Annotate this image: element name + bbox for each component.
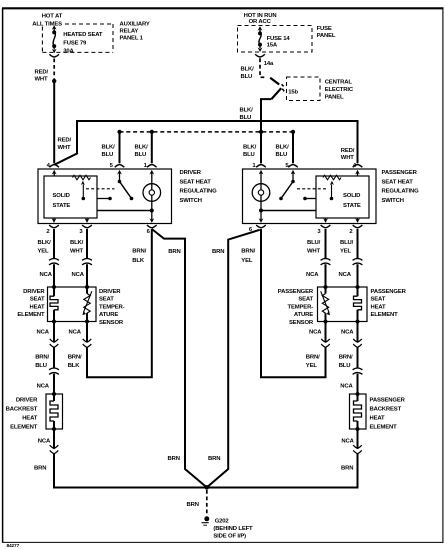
label G202 BEHIND LEFT SIDE OF I/P: [213, 518, 253, 539]
wire BRN from passenger pin 6: [207, 230, 260, 488]
fuse 79 HEATED SEAT 30A: [52, 25, 57, 53]
label BRN/BLU driver: [35, 354, 49, 369]
svg-text:(BEHIND LEFT: (BEHIND LEFT: [213, 526, 253, 532]
svg-text:NCA: NCA: [69, 330, 82, 336]
svg-text:BRN/: BRN/: [339, 354, 353, 360]
pin 6 driver connector: [147, 211, 157, 228]
svg-text:DRIVER: DRIVER: [23, 289, 45, 295]
inline connector on BLU/YEL: [353, 259, 363, 265]
wire from driver backrest element: [53, 429, 55, 448]
svg-text:BLK/: BLK/: [276, 145, 290, 151]
inline connector on driver BRN/BLK wire: [83, 339, 92, 348]
svg-text:WHT: WHT: [58, 145, 72, 151]
svg-text:BRN/: BRN/: [132, 248, 146, 254]
svg-text:BRN: BRN: [341, 466, 353, 472]
svg-text:BLU: BLU: [276, 152, 288, 158]
label BLK/BLU at passenger pin 1: [243, 145, 257, 159]
switch arm driver: [118, 180, 134, 201]
svg-text:6: 6: [147, 229, 151, 235]
label CENTRAL ELECTRIC PANEL: [325, 80, 354, 101]
svg-text:BLK/: BLK/: [241, 67, 255, 73]
svg-text:BLU: BLU: [35, 363, 47, 369]
driver seat heat element: [50, 287, 58, 322]
wire BLK/BLU from central electric panel: [261, 99, 271, 163]
svg-text:HEAT: HEAT: [30, 304, 46, 310]
svg-text:SEAT: SEAT: [99, 297, 114, 303]
indicator lamp passenger: [252, 184, 270, 211]
label AUXILIARY RELAY PANEL 1: [120, 22, 150, 42]
driver backrest heat element: [50, 394, 58, 429]
wiper arrow driver: [81, 181, 85, 201]
wire BRN dashed to G202: [206, 490, 208, 514]
svg-text:PASSENGER: PASSENGER: [382, 170, 418, 176]
wire RED/WHT dashed from fuse 79: [53, 59, 55, 79]
label BLK/BLU at driver pin 5: [102, 145, 116, 159]
pin 2 passenger connector: [353, 218, 363, 228]
switch arm passenger: [279, 180, 295, 201]
svg-text:BRN: BRN: [168, 456, 180, 462]
svg-text:G202: G202: [215, 518, 230, 524]
svg-text:ELEMENT: ELEMENT: [370, 425, 398, 431]
svg-text:ATURE: ATURE: [99, 312, 118, 318]
wire BRN/BLU passenger: [357, 347, 359, 368]
dashed control link passenger: [297, 188, 326, 190]
svg-text:PANEL 1: PANEL 1: [120, 36, 144, 42]
driver seat element assembly box: [48, 287, 97, 322]
wire BLK/BLU drop to driver pin 1: [151, 132, 153, 163]
label FUSE PANEL: [317, 26, 336, 39]
svg-text:SEAT HEAT: SEAT HEAT: [180, 179, 212, 185]
svg-text:WHT: WHT: [70, 249, 84, 255]
label BRN/YEL at passenger pin 6: [241, 248, 255, 263]
passenger backrest heat element box: [350, 394, 367, 429]
inline connector second on passenger BRN/BLU: [353, 368, 363, 374]
svg-text:BLK/: BLK/: [70, 240, 84, 246]
solid state module passenger: [316, 176, 369, 218]
svg-text:NCA: NCA: [309, 330, 322, 336]
junction on bus at passenger pin 5 drop: [291, 130, 295, 134]
junction on bus at driver pin 1 drop: [150, 130, 154, 134]
svg-text:FUSE 79: FUSE 79: [63, 41, 87, 47]
pin 4 passenger connector: [353, 165, 363, 177]
svg-text:YEL: YEL: [306, 363, 318, 369]
svg-text:NCA: NCA: [72, 272, 85, 278]
svg-text:WHT: WHT: [35, 77, 49, 83]
svg-text:BLK: BLK: [132, 258, 145, 264]
wire BRN ground bus: [54, 487, 358, 489]
svg-text:ALL TIMES: ALL TIMES: [32, 22, 62, 28]
passenger backrest heat element: [354, 394, 362, 429]
svg-text:1: 1: [144, 163, 148, 169]
connector 14a at fuse panel: [255, 54, 265, 57]
svg-text:5: 5: [285, 163, 289, 169]
svg-text:BRN/: BRN/: [68, 354, 82, 360]
label BRN/BLK driver: [68, 354, 82, 369]
svg-text:BLU/: BLU/: [307, 240, 321, 246]
dashed control link driver: [86, 188, 115, 190]
pin 4 driver connector: [49, 165, 59, 177]
svg-text:REGULATING: REGULATING: [180, 189, 218, 195]
label DRIVER SEAT HEAT REGULATING SWITCH: [180, 170, 218, 204]
label BRN/YEL passenger: [306, 354, 320, 369]
svg-text:NCA: NCA: [339, 272, 352, 278]
svg-text:RED/: RED/: [35, 69, 49, 75]
inline connector on passenger BRN/YEL wire: [321, 339, 330, 348]
wire BLK/WHT from driver pin 3: [86, 229, 88, 259]
svg-text:SENSOR: SENSOR: [289, 320, 314, 326]
svg-text:ELEMENT: ELEMENT: [17, 312, 45, 318]
svg-text:NCA: NCA: [341, 439, 354, 445]
driver seat temperature sensor: [82, 287, 91, 322]
label BLK/BLU at passenger pin 5: [276, 145, 290, 159]
svg-text:15A: 15A: [267, 43, 278, 49]
svg-text:YEL: YEL: [340, 249, 352, 255]
svg-text:CENTRAL: CENTRAL: [325, 80, 353, 86]
svg-text:BLU/: BLU/: [340, 240, 354, 246]
label DRIVER BACKREST HEAT ELEMENT: [6, 398, 38, 431]
svg-text:YEL: YEL: [38, 249, 50, 255]
inline connector on BLK/WHT: [82, 259, 92, 265]
svg-text:BLK/: BLK/: [102, 145, 116, 151]
label BLK/BLU upper: [241, 67, 255, 81]
svg-text:BLU: BLU: [240, 115, 252, 121]
svg-text:4: 4: [353, 163, 357, 169]
svg-text:BRN: BRN: [208, 456, 220, 462]
wiper arrow passenger: [330, 181, 334, 201]
svg-text:SEAT: SEAT: [298, 297, 313, 303]
pin 3 passenger connector: [321, 218, 331, 228]
svg-text:PANEL: PANEL: [325, 95, 344, 101]
resistor in passenger solid state module: [323, 175, 341, 180]
svg-text:84277: 84277: [7, 543, 20, 549]
passenger seat element assembly box: [318, 287, 368, 322]
label PASSENGER SEAT TEMPERATURE SENSOR: [278, 289, 314, 326]
svg-text:BRN/: BRN/: [35, 354, 49, 360]
label HEATED SEAT FUSE 79 30A: [63, 32, 103, 54]
wire BLU/YEL from passenger pin 2: [357, 229, 359, 259]
svg-text:SOLID: SOLID: [343, 193, 360, 199]
junction on bus at driver pin 5 drop: [117, 130, 121, 134]
wire from passenger sensor bottom: [325, 322, 327, 343]
label PASSENGER BACKREST HEAT ELEMENT: [370, 398, 406, 431]
svg-text:BLU: BLU: [102, 152, 114, 158]
inline connector on driver BRN/BLU wire: [50, 339, 59, 348]
label BLK/BLU lower: [240, 107, 254, 121]
svg-text:3: 3: [317, 229, 321, 235]
label BRN/BLK at driver pin 6: [132, 248, 146, 263]
node HOT IN RUN OR ACC: [244, 13, 277, 25]
splice on RED/WHT feed: [52, 79, 56, 83]
label BLK/WHT: [70, 240, 84, 255]
pin 5 driver connector: [115, 165, 125, 182]
svg-text:BLK/: BLK/: [135, 145, 149, 151]
svg-text:1: 1: [252, 163, 256, 169]
svg-text:HOT IN RUN: HOT IN RUN: [244, 13, 277, 19]
junction driver backrest bottom: [52, 427, 56, 431]
wire from driver sensor bottom: [86, 322, 88, 343]
svg-text:NCA: NCA: [37, 384, 50, 390]
label DRIVER SEAT HEAT ELEMENT: [17, 289, 45, 318]
pin 3 driver connector: [82, 218, 92, 228]
svg-text:2: 2: [349, 229, 353, 235]
svg-text:OR ACC: OR ACC: [249, 19, 272, 25]
svg-text:HEAT: HEAT: [22, 416, 38, 422]
wire BLU/WHT from passenger pin 3: [325, 229, 327, 259]
junction passenger backrest bottom: [356, 427, 360, 431]
wire RED/WHT down to driver switch pin 4: [53, 81, 55, 163]
pin 6 passenger connector: [256, 211, 266, 228]
connector 15b male/female pair: [270, 78, 284, 99]
wire BRN driver backrest to ground bus: [53, 454, 55, 489]
svg-text:NCA: NCA: [40, 272, 53, 278]
junction driver element top: [52, 285, 56, 289]
wire from passenger backrest element: [357, 429, 359, 448]
svg-text:15b: 15b: [288, 90, 298, 96]
label BLU/YEL: [340, 240, 354, 255]
pin 5 passenger connector: [288, 165, 298, 182]
junction driver sensor top: [85, 285, 89, 289]
label SOLID STATE: [53, 193, 71, 209]
svg-text:BRN/: BRN/: [241, 248, 255, 254]
wire to passenger backrest element: [357, 374, 359, 394]
label PASSENGER SEAT HEAT REGULATING SWITCH: [382, 170, 420, 204]
junction passenger sensor top: [324, 285, 328, 289]
wire inside driver switch to pin 6: [97, 210, 152, 212]
wire BLU/YEL to passenger heat element: [357, 264, 359, 287]
fuse 14 15A: [258, 26, 263, 52]
pin 1 driver connector: [147, 165, 157, 190]
junction passenger element top: [356, 285, 360, 289]
indicator lamp driver: [143, 184, 161, 211]
svg-text:SENSOR: SENSOR: [99, 320, 124, 326]
svg-text:RED/: RED/: [58, 137, 72, 143]
svg-text:BLU: BLU: [135, 152, 147, 158]
svg-text:BRN: BRN: [186, 502, 198, 508]
svg-text:PASSENGER: PASSENGER: [371, 289, 407, 295]
svg-text:ATURE: ATURE: [294, 312, 313, 318]
svg-text:BRN: BRN: [212, 249, 224, 255]
ground G202: [202, 516, 210, 525]
svg-text:SEAT HEAT: SEAT HEAT: [382, 179, 414, 185]
svg-text:2: 2: [46, 229, 50, 235]
passenger seat temperature sensor: [321, 287, 330, 322]
svg-text:FUSE: FUSE: [317, 26, 332, 32]
wire RED/WHT branch to passenger switch pin 4: [54, 121, 357, 165]
svg-text:REGULATING: REGULATING: [382, 189, 420, 195]
svg-text:BLK/: BLK/: [240, 107, 254, 113]
junction driver sensor bottom: [85, 320, 89, 324]
label RED/WHT branch: [58, 137, 72, 151]
svg-text:PANEL: PANEL: [317, 33, 336, 39]
svg-text:WHT: WHT: [341, 155, 355, 161]
svg-text:3: 3: [79, 229, 83, 235]
label RED/WHT passenger: [341, 148, 355, 161]
svg-text:DRIVER: DRIVER: [16, 398, 38, 404]
svg-text:BLK: BLK: [68, 363, 81, 369]
wire BRN/BLU driver: [53, 347, 55, 368]
svg-text:5: 5: [110, 163, 114, 169]
svg-text:PASSENGER: PASSENGER: [278, 289, 314, 295]
svg-text:NCA: NCA: [306, 272, 319, 278]
svg-text:SEAT: SEAT: [30, 297, 45, 303]
junction ground bus: [205, 485, 210, 490]
label SOLID STATE passenger: [343, 193, 361, 209]
label BLK/YEL: [38, 240, 52, 255]
svg-text:WHT: WHT: [307, 249, 321, 255]
inline connector second on driver BRN/BLU: [49, 368, 59, 374]
svg-text:BACKREST: BACKREST: [370, 407, 402, 413]
svg-text:RED/: RED/: [341, 148, 355, 154]
svg-text:NCA: NCA: [341, 330, 354, 336]
svg-text:HEATED SEAT: HEATED SEAT: [63, 32, 103, 38]
svg-text:SOLID: SOLID: [53, 193, 70, 199]
svg-text:14a: 14a: [264, 61, 274, 67]
inline connector on passenger BRN/BLU wire: [353, 339, 362, 348]
svg-text:SWITCH: SWITCH: [180, 198, 202, 204]
svg-text:PASSENGER: PASSENGER: [370, 398, 406, 404]
driver backrest heat element box: [46, 394, 63, 429]
wire BLK/WHT to driver temperature sensor: [86, 264, 88, 287]
svg-text:FUSE 14: FUSE 14: [267, 36, 291, 42]
svg-text:BRN: BRN: [168, 249, 180, 255]
wire BLK/BLU dashed from fuse 14: [260, 58, 266, 77]
svg-text:DRIVER: DRIVER: [180, 170, 202, 176]
wire BLK/BLU drop to passenger pin 5: [292, 132, 294, 163]
pin 2 driver connector: [49, 218, 59, 228]
inline connector on passenger backrest BRN wire: [353, 445, 362, 454]
solid state module driver: [44, 176, 97, 218]
junction passenger sensor bottom: [324, 320, 328, 324]
svg-text:TEMPER-: TEMPER-: [99, 304, 125, 310]
contact stub from passenger solid state: [303, 197, 316, 201]
wire BLK/YEL to driver heat element: [53, 264, 55, 287]
svg-text:HEAT: HEAT: [371, 304, 387, 310]
svg-text:TEMPER-: TEMPER-: [288, 304, 314, 310]
svg-text:BLU: BLU: [241, 74, 253, 80]
contact stub from driver solid state: [97, 197, 112, 201]
inline connector on BLK/YEL: [49, 259, 59, 265]
svg-text:BLK/: BLK/: [38, 240, 52, 246]
svg-text:RELAY: RELAY: [120, 29, 139, 35]
svg-text:NCA: NCA: [340, 384, 353, 390]
svg-text:BLK/: BLK/: [243, 145, 257, 151]
pin 1 passenger connector: [256, 165, 266, 190]
passenger seat heat regulating switch box: [243, 169, 377, 224]
svg-text:SEAT: SEAT: [371, 297, 386, 303]
wire BRN passenger backrest to ground bus: [357, 454, 359, 489]
svg-text:AUXILIARY: AUXILIARY: [120, 22, 150, 28]
svg-text:SWITCH: SWITCH: [382, 198, 404, 204]
fuse panel dashed box: [238, 26, 313, 53]
passenger seat heat element: [354, 287, 362, 322]
wire BLK/BLU dashed bus: [120, 131, 294, 133]
junction passenger element bottom: [356, 320, 360, 324]
wire inside passenger switch to pin 6: [261, 210, 316, 212]
svg-text:STATE: STATE: [53, 203, 71, 209]
svg-text:BLU: BLU: [243, 152, 255, 158]
wire BLU/WHT to passenger temperature sensor: [325, 264, 327, 287]
connector leaving fuse 79: [49, 54, 59, 57]
svg-text:SIDE OF I/P): SIDE OF I/P): [213, 534, 246, 540]
svg-text:HEAT: HEAT: [370, 416, 386, 422]
wire from driver element bottom: [53, 322, 55, 343]
svg-text:YEL: YEL: [241, 258, 253, 264]
junction below driver lamp: [150, 209, 154, 213]
svg-text:NCA: NCA: [37, 330, 50, 336]
inline connector on BLU/WHT: [321, 259, 331, 265]
junction driver backrest top: [52, 392, 56, 396]
junction passenger backrest top: [356, 392, 360, 396]
svg-text:NCA: NCA: [38, 439, 51, 445]
label BRN/BLU passenger: [339, 354, 353, 369]
label RED/WHT: [35, 69, 49, 82]
auxiliary relay panel 1 dashed box: [42, 24, 113, 52]
wire from passenger element bottom: [357, 322, 359, 343]
svg-text:30A: 30A: [63, 48, 74, 54]
svg-text:DRIVER: DRIVER: [99, 289, 121, 295]
junction driver element bottom: [52, 320, 56, 324]
inline connector on driver backrest BRN wire: [50, 445, 59, 454]
svg-text:ELECTRIC: ELECTRIC: [325, 87, 354, 93]
label FUSE 14 15A: [267, 36, 291, 49]
junction below passenger lamp: [259, 209, 263, 213]
svg-text:BRN/: BRN/: [306, 354, 320, 360]
svg-text:STATE: STATE: [343, 203, 361, 209]
svg-text:ELEMENT: ELEMENT: [371, 312, 399, 318]
label BLK/BLU at driver pin 1: [135, 145, 149, 159]
wire BLK/YEL from driver pin 2: [53, 229, 55, 259]
label DRIVER SEAT TEMPERATURE SENSOR: [99, 289, 125, 326]
resistor in driver solid state module: [73, 175, 91, 180]
node HOT AT ALL TIMES: [32, 14, 62, 28]
junction on bus at passenger pin 1 drop: [259, 130, 263, 134]
driver seat heat regulating switch box: [38, 169, 172, 224]
label PASSENGER SEAT HEAT ELEMENT: [371, 289, 407, 318]
svg-text:BLU: BLU: [339, 363, 351, 369]
wire to driver backrest element: [53, 374, 55, 394]
wire BRN/BLK driver sensor return to pin 6: [87, 229, 152, 377]
wire BLK/BLU drop to driver pin 5: [119, 132, 121, 163]
svg-text:BRN: BRN: [34, 466, 46, 472]
svg-text:HOT AT: HOT AT: [42, 14, 63, 20]
wire BRN from driver pin 6: [152, 229, 207, 487]
svg-text:ELEMENT: ELEMENT: [10, 425, 38, 431]
svg-text:BACKREST: BACKREST: [6, 407, 38, 413]
wire BRN/YEL passenger sensor return to pin 6: [261, 229, 326, 377]
central electric panel dashed box: [287, 77, 321, 101]
label BLU/WHT: [307, 240, 321, 255]
